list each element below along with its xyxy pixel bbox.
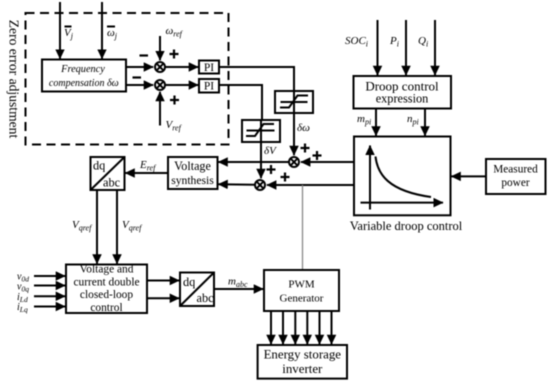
- svg-text:PWM: PWM: [288, 279, 315, 291]
- svg-text:PI: PI: [204, 62, 214, 74]
- svg-text:Variable droop control: Variable droop control: [350, 219, 463, 233]
- svg-text:mabc: mabc: [228, 276, 248, 290]
- svg-text:abc: abc: [103, 176, 121, 190]
- svg-text:Vref: Vref: [166, 119, 183, 133]
- svg-text:Vqref: Vqref: [72, 219, 93, 233]
- svg-text:inverter: inverter: [282, 362, 323, 376]
- svg-text:dq: dq: [183, 275, 195, 289]
- svg-text:Qi: Qi: [418, 35, 428, 49]
- svg-text:power: power: [501, 177, 529, 189]
- svg-text:Vqref: Vqref: [122, 219, 143, 233]
- svg-text:Vj: Vj: [64, 27, 74, 41]
- svg-text:Energy storage: Energy storage: [264, 347, 342, 361]
- svg-text:ωj: ωj: [107, 27, 118, 41]
- svg-text:expression: expression: [376, 92, 429, 106]
- svg-text:dq: dq: [93, 159, 105, 173]
- svg-text:current double: current double: [73, 276, 139, 288]
- svg-text:closed-loop: closed-loop: [80, 289, 133, 301]
- svg-text:SOCi: SOCi: [345, 35, 368, 49]
- svg-text:control: control: [90, 302, 122, 314]
- svg-text:Measured: Measured: [493, 164, 538, 176]
- svg-text:ωref: ωref: [166, 25, 184, 39]
- svg-text:Voltage: Voltage: [174, 159, 211, 173]
- svg-text:npi: npi: [407, 113, 419, 127]
- svg-text:compensation δω: compensation δω: [49, 78, 119, 89]
- svg-text:δV: δV: [264, 145, 277, 157]
- svg-text:mpi: mpi: [357, 113, 371, 127]
- svg-text:Frequency: Frequency: [60, 64, 105, 75]
- svg-text:Pi: Pi: [389, 35, 399, 49]
- svg-text:Voltage and: Voltage and: [80, 264, 134, 276]
- svg-text:synthesis: synthesis: [171, 174, 214, 187]
- svg-text:PI: PI: [204, 81, 214, 93]
- svg-text:Eref: Eref: [139, 159, 157, 173]
- svg-text:Zero error adjustment: Zero error adjustment: [7, 20, 22, 139]
- svg-text:abc: abc: [197, 291, 215, 305]
- svg-text:Generator: Generator: [280, 293, 324, 305]
- svg-text:δω: δω: [297, 122, 310, 134]
